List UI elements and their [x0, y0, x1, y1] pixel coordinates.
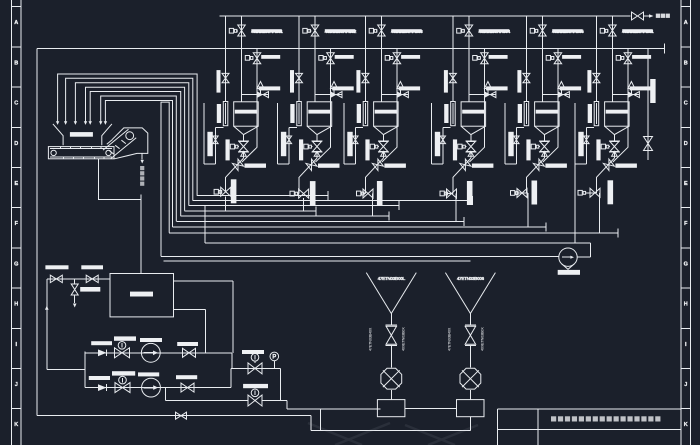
tag bar bypass unit 2 [332, 86, 354, 90]
unit 5 feed pipe [541, 16, 543, 102]
svg-text:B: B [14, 60, 18, 66]
wire train1 to control valve [231, 353, 280, 369]
title block [497, 409, 681, 445]
instrument box V304 [370, 144, 379, 149]
silo T1 level bar [235, 110, 257, 114]
tag bar discharge unit 3 [377, 181, 383, 205]
instrument box V601 [600, 28, 608, 33]
hopper feed arrows [56, 121, 107, 125]
wire blower to box 2 [469, 390, 471, 400]
instrument box V205 [290, 191, 298, 196]
aux tag bar unit 1 [207, 132, 212, 156]
valve V101 inlet [236, 25, 245, 36]
pump P2 [142, 378, 161, 397]
instrument box V204 [304, 144, 313, 149]
standpipe filter unit 3 [363, 102, 368, 126]
relief valve unit 2 [331, 82, 338, 95]
unit 6 inlet stub [612, 94, 639, 96]
blower train 1 assembly [366, 273, 416, 417]
valve V402 on riser [449, 73, 456, 82]
valve V602 on riser [593, 73, 600, 82]
instrument box V305 [357, 191, 365, 196]
cyclone funnel F1 [366, 273, 416, 314]
riser tag bar unit 6 [596, 139, 600, 160]
valve P1 discharge [183, 348, 196, 357]
tank inlet pipe [47, 278, 110, 280]
tag bar bypass unit 4 [486, 86, 508, 90]
border frame right strip [681, 0, 691, 445]
conveyor roller right [106, 150, 111, 155]
outlet stem vent unit 1 [241, 151, 247, 156]
outlet stem vent unit 2 [314, 151, 320, 156]
tag bar V603 [632, 55, 651, 59]
unit 3 inlet stub [381, 94, 408, 96]
wire conveyor drain [99, 159, 142, 200]
svg-text:G: G [14, 261, 18, 267]
inclined conveyor [103, 129, 136, 158]
unit 2 feed pipe [314, 16, 316, 102]
flow meter FM1 [559, 248, 577, 269]
feed control valve unit 5 [558, 92, 569, 98]
tag bar check valve unit 1 [245, 164, 267, 168]
tag bar V503 [562, 55, 581, 59]
instrument box V301 [369, 28, 377, 33]
riser flow arrow [45, 306, 49, 310]
silo outlet valve V304 [378, 135, 389, 159]
conveyor roller left [51, 150, 56, 155]
valve V203 bypass [327, 53, 335, 64]
process unit 2 assembly [278, 16, 357, 211]
tag bar V303 [401, 55, 420, 59]
tag bar discharge unit 6 [608, 180, 614, 204]
standpipe filter unit 2 [297, 102, 302, 126]
valve V501 inlet [537, 25, 546, 36]
pump P1 [141, 343, 160, 362]
bypass drop wire unit 6 [613, 147, 628, 162]
discharge drop wire unit 1 [225, 196, 227, 211]
tank outlet pipe right [174, 281, 234, 353]
discharge drop wire unit 5 [527, 192, 528, 194]
svg-text:P: P [272, 355, 276, 361]
tag bar bypass unit 3 [399, 86, 421, 90]
instrument box V405 [440, 191, 448, 196]
svg-text:K: K [684, 422, 688, 428]
rotated tag bar unit 4 riser [444, 70, 448, 93]
wire between blower boxes [405, 408, 457, 410]
tag bar tank inlet 1 [45, 265, 68, 269]
hopper tag bar [70, 132, 93, 137]
relief valve unit 6 [628, 82, 635, 95]
instrument box V403 [473, 56, 481, 61]
instrument box V101 [229, 28, 237, 33]
instrument box V603 [616, 56, 624, 61]
tag bar discharge unit 4 [467, 181, 473, 205]
wire CV1 down [279, 368, 281, 400]
aux instrument loop unit 1 [204, 103, 223, 164]
unit 5 standpipe riser [525, 16, 527, 102]
unit 1 bypass pipe [256, 49, 258, 148]
discharge pipe unit 3 [363, 177, 366, 193]
discharge pipe unit 2 [298, 177, 301, 193]
title text GuangGaoChuangYi GongChang ShengChan XiTong TuLi (2) [551, 416, 660, 421]
discharge valve V505 [517, 189, 527, 198]
silo T3 body [374, 102, 399, 135]
aux tag bar unit 2 [281, 132, 286, 156]
valve V302 on riser [362, 73, 369, 82]
silo T1 body [234, 102, 259, 135]
watermark strokes [308, 423, 478, 445]
check valve P2 [98, 384, 107, 391]
instrument box V201 [303, 28, 311, 33]
tag bar check valve unit 5 [545, 164, 567, 168]
suction riser [47, 279, 85, 388]
outlet stem vent unit 6 [612, 151, 618, 156]
unit 4 inlet stub [469, 94, 496, 96]
pressure gauge P [270, 352, 279, 368]
process unit 1 assembly [204, 16, 283, 211]
tag bar check valve unit 2 [318, 164, 340, 168]
discharge valve V105 [221, 187, 231, 196]
feed control valve unit 3 [397, 92, 408, 98]
unit 5 inlet stub [542, 94, 569, 96]
unit 3 standpipe riser [364, 16, 366, 102]
tag bar drain valve [80, 287, 100, 292]
unit 4 standpipe riser [452, 16, 454, 102]
rotated tag bar standpipe unit 3 [357, 104, 361, 123]
valve tank inlet A [50, 275, 62, 283]
wire CV2 to blower boxes [262, 401, 381, 409]
tag bars pump train 1 [91, 336, 198, 346]
tank outlet pipe lower [174, 309, 206, 353]
cyclone funnel F2 [445, 273, 495, 314]
unit 1 standpipe riser [225, 16, 227, 102]
svg-text:C: C [14, 101, 18, 107]
instrument box V105 [214, 189, 222, 194]
bypass drop wire unit 5 [543, 147, 558, 162]
instrument box V605 [578, 190, 586, 195]
branch wire to CV2 [166, 388, 248, 401]
valve P2 discharge [181, 383, 194, 392]
valve V603 bypass [624, 53, 632, 64]
blower B1 [381, 368, 402, 389]
silo outlet valve V504 [539, 135, 550, 159]
silo T6 body [605, 102, 630, 135]
aux instrument loop unit 4 [432, 103, 451, 164]
unit 6 bypass pipe [627, 49, 629, 148]
pump train 1 pipe [85, 352, 232, 354]
process unit 5 assembly [505, 16, 584, 227]
unit 2 standpipe riser [298, 16, 300, 102]
valve tank inlet B [86, 275, 98, 283]
funnel valve FV1 [386, 314, 397, 368]
label 40DBE30AA301 [251, 29, 283, 35]
svg-text:B: B [684, 60, 688, 66]
riser tag bar unit 4 [453, 139, 457, 160]
hood outlet pipe [141, 153, 143, 159]
instrument box V504 [531, 144, 540, 149]
unit 1 inlet stub [242, 94, 269, 96]
valve V103 bypass [253, 53, 261, 64]
discharge pipe unit 6 [590, 177, 597, 193]
unit 3 bypass pipe [396, 49, 398, 148]
valve V502 on riser [523, 73, 530, 82]
label 40DBE30AA304 [478, 29, 510, 35]
header pipe H1 [220, 15, 631, 17]
instrument box V303 [385, 56, 393, 61]
tag bar aux column [650, 79, 655, 103]
instrument box V404 [458, 144, 467, 149]
drain arrow [73, 304, 77, 308]
svg-text:A: A [14, 20, 18, 26]
unit 6 aux drop to return [574, 164, 576, 243]
svg-text:G: G [684, 261, 688, 267]
discharge pipe unit 5 [517, 177, 527, 193]
wire manifold branch [320, 409, 322, 430]
rotated tag bar standpipe unit 1 [217, 104, 221, 123]
relief valve unit 3 [397, 82, 404, 95]
feed control valve unit 4 [485, 92, 496, 98]
aux instrument loop unit 5 [505, 103, 524, 164]
rotated tag bar unit 5 riser [517, 70, 521, 93]
riser tag bar unit 3 [365, 139, 369, 160]
svg-text:D: D [684, 141, 688, 147]
instrument box V505 [511, 191, 519, 196]
tag bar V103 [261, 55, 280, 59]
silo T5 level bar [536, 110, 558, 114]
svg-text:C: C [684, 101, 688, 107]
standpipe filter unit 5 [524, 102, 529, 126]
valve V102 on riser [222, 73, 229, 82]
riser tag bar unit 2 [299, 139, 303, 160]
incline ticks [109, 140, 126, 154]
bypass drop wire unit 3 [382, 147, 397, 162]
wire left loop down [36, 49, 38, 416]
zone letters right A-K [684, 20, 688, 428]
day tank tag bar [130, 292, 153, 297]
label 40DBE30AA305 [552, 29, 584, 35]
unit 2 inlet stub [315, 94, 342, 96]
outlet stem vent unit 4 [468, 151, 474, 156]
discharge drop wire unit 3 [372, 193, 374, 195]
outlet stem vent unit 5 [542, 151, 548, 156]
tag bar V403 [489, 55, 508, 59]
motor valve P1 [115, 342, 130, 358]
discharge valve V405 [447, 189, 457, 198]
unit 1 feed pipe [241, 16, 243, 102]
tag bar bypass unit 6 [630, 86, 652, 90]
silo T5 body [535, 102, 560, 135]
box 2 bottom riser [469, 417, 471, 431]
tag bar check valve unit 3 [384, 164, 406, 168]
aux valve unit 4 [440, 136, 445, 144]
wire blower to box 1 [390, 390, 392, 400]
return header bundle horizontal runs [169, 191, 618, 237]
outlet arrow [141, 160, 144, 164]
valve V201 inlet [309, 25, 318, 36]
process unit 6 assembly [575, 16, 654, 233]
svg-text:40XETN03B0X: 40XETN03B0X [402, 327, 406, 351]
header pipe H2 [37, 48, 664, 50]
aux instrument loop unit 3 [344, 103, 363, 164]
aux tag bar unit 3 [347, 132, 352, 156]
instrument box V104 [230, 144, 239, 149]
silo outlet valve V204 [312, 135, 323, 159]
valve V303 bypass [393, 53, 401, 64]
svg-text:K: K [14, 422, 18, 428]
discharge drop wire unit 6 [599, 192, 602, 194]
silo T4 body [461, 102, 486, 135]
drain tee valve [71, 279, 78, 303]
svg-text:47ETN03B40X: 47ETN03B40X [447, 327, 451, 351]
discharge valve V205 [298, 189, 309, 198]
silo T4 level bar [462, 110, 484, 114]
rotated tag bar standpipe unit 5 [518, 104, 522, 123]
tag bar flow meter [558, 270, 580, 275]
svg-text:47ETN03B006: 47ETN03B006 [457, 276, 485, 281]
tag bar discharge unit 2 [310, 181, 316, 205]
aux tag bar unit 6 [578, 132, 583, 156]
unit 6 feed pipe [611, 16, 613, 102]
incline roller top [126, 132, 134, 140]
discharge valve V305 [363, 189, 373, 198]
instrument box V501 [530, 28, 538, 33]
return line L9 [205, 206, 590, 244]
feed control valve unit 1 [258, 92, 269, 98]
instrument box V103 [245, 56, 253, 61]
pump train 2 pipe [85, 368, 231, 387]
return corner to flow meter [577, 243, 590, 257]
aux instrument loop unit 2 [278, 103, 297, 164]
silo T3 level bar [375, 110, 397, 114]
blower box 1 [377, 400, 405, 417]
label GongYeShui (industrial water) [656, 14, 670, 18]
unit 6 standpipe riser [595, 16, 597, 102]
belt conveyor 1 [48, 147, 114, 159]
process unit 4 assembly [432, 16, 511, 221]
bypass drop wire unit 4 [469, 147, 484, 162]
feed control valve unit 6 [628, 92, 639, 98]
svg-text:H: H [14, 302, 18, 308]
relief valve unit 4 [484, 82, 491, 95]
unit 4 bypass pipe [483, 49, 485, 148]
relief valve unit 5 [558, 82, 565, 95]
check valve unit 1 [226, 158, 244, 177]
standpipe filter unit 1 [223, 102, 228, 126]
label 40DBE30AA302 [325, 29, 357, 35]
bypass drop wire unit 1 [242, 147, 257, 162]
tag bar V203 [335, 55, 354, 59]
return line L10 to flow meter [161, 255, 559, 257]
unit 5 bypass pipe [557, 49, 559, 148]
feed control valve unit 2 [331, 92, 342, 98]
tag bar tank inlet 2 [81, 265, 103, 269]
aux tag bar unit 4 [435, 132, 440, 156]
svg-text:A: A [684, 20, 688, 26]
discharge pipe unit 1 [225, 177, 227, 192]
tag bar bypass unit 5 [560, 86, 582, 90]
rotated tag bar unit 3 riser [356, 70, 360, 93]
wire bottom loop corner [310, 416, 312, 431]
check valve unit 2 [299, 158, 317, 177]
rotated tag bar unit 1 riser [217, 70, 221, 93]
motor valve P2 [115, 376, 130, 392]
silo outlet valve V104 [238, 135, 249, 159]
day tank [110, 274, 174, 317]
tag bar CV1 [242, 350, 264, 354]
tag bar CV2 [243, 384, 268, 388]
label QuZhiChengPin (to finished product) [140, 166, 144, 186]
svg-text:H: H [684, 302, 688, 308]
recycle pipe bundle (7 lines) to hopper [58, 74, 198, 227]
instrument box V604 [601, 144, 610, 149]
border frame left strip [11, 0, 21, 445]
aux valve unit 6 [584, 136, 589, 144]
rotated tag bar standpipe unit 2 [290, 104, 294, 123]
valve V401 inlet [463, 25, 472, 36]
valve V202 on riser [296, 73, 303, 82]
aux instrument loop unit 6 [575, 103, 594, 164]
tag bar bypass unit 1 [259, 86, 281, 90]
valve on bottom loop [176, 412, 187, 419]
aux valve unit 2 [286, 136, 291, 144]
arrow to industrial water [649, 14, 654, 18]
check valve unit 6 [597, 158, 615, 177]
tag bar check valve unit 6 [615, 164, 637, 168]
unit 2 bypass pipe [330, 49, 332, 148]
unit 3 feed pipe [380, 16, 382, 102]
silo outlet valve V604 [609, 135, 620, 159]
silo outlet valve V404 [465, 135, 476, 159]
svg-text:J: J [684, 382, 687, 388]
svg-text:J: J [15, 382, 18, 388]
svg-text:40XETN03B0X: 40XETN03B0X [481, 327, 485, 351]
zone letters left A-K [14, 20, 18, 428]
svg-text:E: E [14, 181, 18, 187]
return line L11 [164, 260, 471, 262]
H2 end tick [663, 44, 665, 54]
label 40DBE20AA301 [622, 29, 654, 35]
unit 4 feed pipe [468, 16, 470, 102]
svg-text:47ETN03B40X: 47ETN03B40X [368, 327, 372, 351]
instrument box V203 [319, 56, 327, 61]
bypass drop wire unit 2 [316, 147, 331, 162]
outlet stem vent unit 3 [381, 151, 387, 156]
wire bottom manifold [311, 429, 471, 431]
silo T6 level bar [606, 110, 628, 114]
funnel valve FV2 [465, 314, 476, 368]
riser tag bar unit 5 [526, 139, 530, 160]
valve V601 inlet [607, 25, 616, 36]
check valve unit 3 [366, 158, 384, 177]
process unit 3 assembly [344, 16, 423, 216]
bundle bridge line 8 [161, 102, 169, 256]
relief valve unit 1 [257, 82, 264, 95]
silo T2 level bar [308, 110, 330, 114]
discharge hood [113, 128, 148, 159]
riser tag bar unit 1 [226, 139, 230, 160]
check valve unit 4 [453, 158, 471, 177]
aux valve unit 1 [213, 136, 218, 144]
valve V-GY horizontal bowtie on H1 outlet [632, 12, 651, 20]
aux tag bar unit 5 [508, 132, 513, 156]
tag bars pump train 2 [89, 371, 197, 380]
instrument box V401 [457, 28, 465, 33]
blower train 2 assembly [445, 273, 495, 431]
svg-text:47ETN03B00L: 47ETN03B00L [378, 276, 406, 281]
valve V301 inlet [376, 25, 385, 36]
check valve P1 [98, 349, 107, 356]
standpipe filter unit 4 [451, 102, 456, 126]
